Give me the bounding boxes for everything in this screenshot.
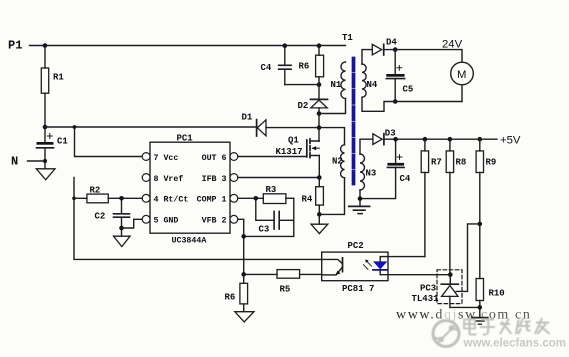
wire: 24V return rail (362, 97, 462, 111)
svg-text:+5V: +5V (500, 135, 521, 147)
wire: Vref rail to opto collector (74, 178, 322, 260)
svg-text:PC2: PC2 (348, 241, 364, 251)
wire: N2 bottom return (319, 178, 344, 215)
svg-text:Q1: Q1 (288, 136, 299, 146)
junction C1 top (43, 125, 48, 130)
junction N/C1 (43, 159, 47, 163)
junction R10 bottom (478, 305, 483, 310)
winding N4 (362, 64, 366, 97)
motor M (451, 62, 474, 101)
junction source/IFB/R4 (317, 175, 322, 180)
optocoupler PC2 box (322, 252, 388, 281)
svg-text:COMP 1: COMP 1 (197, 196, 227, 205)
svg-text:N3: N3 (366, 169, 377, 179)
junction R2/C2 (119, 196, 124, 201)
junction C5 bottom (393, 99, 398, 104)
junction VFB/comp return (241, 234, 246, 239)
capacitor C3 (256, 198, 294, 234)
wire: R5 to PC2 emitter (300, 273, 322, 275)
pin 3 IFB (202, 174, 238, 184)
shunt regulator TL431 (441, 275, 458, 308)
pin 1 COMP (197, 194, 238, 204)
wire: N3 bottom to ground (359, 190, 361, 206)
svg-text:UC3844A: UC3844A (172, 236, 207, 245)
wire: PC2 cathode to TL431 (388, 274, 450, 276)
ground (secondary) (349, 205, 370, 207)
junction C5 top (393, 47, 398, 52)
winding N3 (360, 154, 365, 190)
opto LED (373, 257, 388, 275)
svg-text:N4: N4 (367, 80, 378, 90)
wire: COMP to R3 (238, 197, 263, 199)
resistor R3 (263, 185, 294, 204)
resistor R6 (snubber) (299, 43, 324, 84)
pin 5 GND (142, 215, 178, 225)
resistor R6 (feedback divider) (225, 274, 248, 311)
svg-text:P1: P1 (8, 39, 22, 53)
diode D4 (362, 38, 397, 65)
svg-text:7 Vcc: 7 Vcc (154, 154, 179, 163)
junction Vcc stub (73, 125, 77, 129)
svg-text:R8: R8 (456, 158, 467, 168)
svg-text:R2: R2 (90, 186, 101, 196)
diode D1 (242, 113, 320, 137)
svg-text:R4: R4 (302, 195, 313, 205)
svg-text:R1: R1 (53, 73, 64, 83)
resistor R7 (421, 137, 442, 257)
opto phototransistor (322, 258, 343, 275)
pin 6 OUT (202, 153, 238, 163)
svg-text:R6: R6 (299, 62, 310, 72)
diode D2 (298, 85, 328, 141)
svg-text:C2: C2 (95, 212, 106, 222)
pin 8 Vref (142, 174, 183, 184)
wire: IFB sense (238, 177, 319, 179)
wire: N input (28, 160, 46, 162)
junction D1/N2 top (317, 125, 322, 130)
junction TL431 cathode (448, 272, 453, 277)
wire: +5V rail (384, 138, 497, 140)
resistor R10 (476, 279, 505, 318)
resistor R1 (41, 46, 64, 143)
junction C2/GND pin (119, 226, 124, 231)
wire: GND pin jog (122, 219, 143, 228)
resistor R9 (476, 137, 496, 279)
ground under C1 (36, 169, 55, 180)
transistor Q1 K1317 (276, 136, 320, 158)
svg-text:D3: D3 (385, 128, 396, 138)
svg-text:D2: D2 (298, 101, 309, 111)
wire: TL431 anode to R10 (450, 306, 480, 308)
svg-text:R3: R3 (266, 185, 277, 195)
svg-text:C1: C1 (57, 137, 68, 147)
svg-text:OUT 6: OUT 6 (202, 154, 227, 163)
wire: OUT to Q1 gate (238, 156, 307, 158)
junction Vref/R2 (72, 197, 76, 201)
transformer core (352, 59, 356, 184)
junction N3/C4 ground node (358, 196, 363, 201)
LED arrows (363, 259, 371, 269)
svg-text:R9: R9 (486, 158, 497, 168)
junction R9/ref tap (478, 222, 483, 227)
resistor R2 (74, 186, 142, 203)
svg-text:M: M (457, 69, 466, 81)
svg-text:www.elecfans.com: www.elecfans.com (463, 338, 566, 350)
ground (bottom right) (472, 317, 488, 319)
capacitor C4 (output) (360, 137, 411, 199)
junction VFB/R5/R6 (241, 272, 246, 277)
svg-text:IFB 3: IFB 3 (202, 175, 227, 184)
svg-text:D4: D4 (386, 38, 397, 48)
resistor R5 (244, 270, 300, 295)
svg-text:R10: R10 (489, 289, 505, 299)
svg-text:5 GND: 5 GND (154, 217, 179, 226)
diode D3 (360, 128, 396, 154)
wire: N1 bottom to drain node (319, 99, 346, 114)
svg-text:PC1: PC1 (177, 133, 194, 143)
elecfans logo (433, 321, 459, 347)
pin 4 Rt/Ct (142, 194, 188, 204)
svg-text:N1: N1 (331, 80, 342, 90)
winding N2 (341, 145, 345, 178)
capacitor C4 (snubber) (261, 43, 292, 84)
wire: Q1 source to R4 (318, 156, 320, 178)
wire: Vcc rail to D1 (45, 126, 257, 128)
wire: TL431 ref tap (456, 224, 480, 292)
svg-text:C3: C3 (259, 225, 270, 235)
wire: comp network return to VFB (244, 198, 294, 236)
wire: PC2 anode to R7 (388, 256, 425, 258)
IC PC1 box (150, 142, 230, 233)
ground under R6 (235, 312, 254, 322)
svg-text:8 Vref: 8 Vref (154, 174, 184, 184)
svg-text:TL431: TL431 (412, 294, 440, 304)
PC3 dashed outline (437, 270, 462, 304)
svg-text:C4: C4 (261, 63, 272, 73)
ground under R4 (311, 224, 328, 233)
svg-text:4 Rt/Ct: 4 Rt/Ct (154, 195, 189, 205)
wire: P1 top rail (30, 45, 346, 47)
capacitor C2 (95, 198, 130, 236)
capacitor C1 (37, 134, 69, 169)
pin 2 VFB (202, 215, 238, 225)
svg-text:C5: C5 (403, 85, 414, 95)
elecfans Chinese watermark (464, 317, 550, 335)
svg-text:N: N (11, 155, 18, 169)
svg-text:R7: R7 (431, 158, 442, 168)
wire: Vcc stub to pin7 (75, 127, 143, 157)
ground under C2 (114, 236, 131, 246)
svg-text:PC81 7: PC81 7 (342, 284, 374, 294)
junction at P1/R1 (43, 43, 48, 48)
svg-text:R5: R5 (280, 285, 291, 295)
junction COMP/C3 (254, 196, 259, 201)
resistor R8 (446, 137, 466, 275)
capacitor C5 (386, 50, 413, 102)
svg-text:VFB 2: VFB 2 (202, 217, 227, 226)
junction D2/N1 (317, 111, 322, 116)
svg-text:PC3: PC3 (420, 283, 436, 293)
svg-text:D1: D1 (242, 113, 253, 123)
svg-text:C4: C4 (400, 174, 411, 184)
pin 7 Vcc (142, 153, 178, 163)
wire: snubber bottom rail (285, 84, 319, 86)
wire: 24V rail (384, 50, 462, 63)
junction snubber bottom (317, 82, 322, 87)
svg-text:24V: 24V (442, 39, 463, 51)
svg-text:T1: T1 (342, 33, 353, 43)
svg-text:N2: N2 (332, 157, 343, 167)
svg-text:R6: R6 (225, 293, 236, 303)
resistor R4 (302, 178, 324, 225)
wire: N2 top to drain node (319, 128, 345, 145)
svg-text:K1317: K1317 (276, 147, 303, 157)
junction R4 bottom / N2 return (317, 212, 322, 217)
wire: VFB vertical (238, 219, 244, 274)
winding N1 (341, 62, 346, 99)
